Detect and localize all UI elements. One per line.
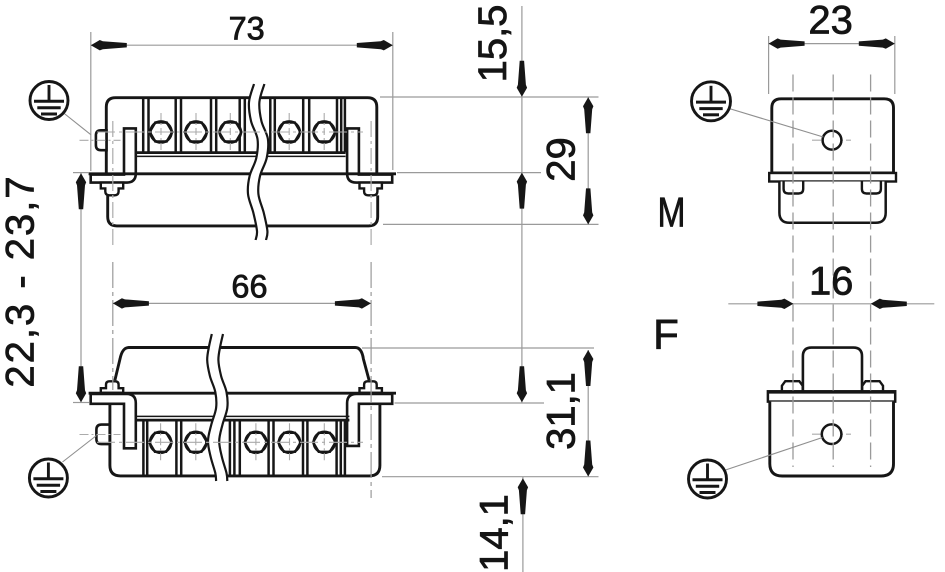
- dimension 14,1 line: [522, 477, 524, 572]
- svg-text:73: 73: [229, 11, 265, 47]
- male insert front view: upper body: [106, 98, 377, 175]
- F side view right tab: [862, 381, 883, 391]
- F side view PE screw: [812, 433, 851, 435]
- PE symbol M side: [692, 82, 731, 121]
- male flange line: [89, 172, 396, 175]
- leader line female PE: [63, 436, 97, 463]
- leader line F side PE: [720, 438, 823, 473]
- svg-text:M: M: [658, 190, 686, 236]
- F side view flange band: [768, 391, 895, 401]
- svg-text:66: 66: [231, 268, 267, 304]
- female body bottom extension line: [382, 476, 599, 478]
- female terminal screws (hex): [150, 432, 171, 453]
- dimension 22,3 - 23,7 line: [80, 173, 82, 403]
- male right hold-down clamp: [347, 128, 392, 182]
- side views vertical centerlines: [792, 75, 794, 468]
- M side view PE screw: [812, 139, 851, 141]
- female PE terminal lug: [96, 425, 109, 445]
- F side view left tab: [782, 381, 803, 391]
- M side view left latch lug: [784, 182, 804, 194]
- F side view tongue: [803, 348, 862, 392]
- female right peg: [360, 381, 382, 393]
- female terminal cell divider walls: [142, 421, 145, 474]
- dimension 73 extension lines: [90, 32, 92, 171]
- dimension 23 extension lines: [768, 36, 770, 94]
- female left peg: [101, 381, 123, 393]
- male left hold-down clamp: [91, 128, 136, 182]
- male lower body: [108, 195, 378, 226]
- dimension 23 line: [769, 43, 895, 45]
- female right hold-down clamp: [347, 394, 392, 446]
- PE symbol bottom-left: [29, 459, 67, 497]
- female flange extension lines: [73, 402, 89, 404]
- male left mounting foot: [101, 183, 123, 196]
- male body top extension line: [380, 96, 599, 98]
- F side view body: [770, 402, 894, 476]
- male PE terminal centerline: [80, 139, 121, 141]
- dimension 29 line: [587, 97, 589, 224]
- female PE terminal centerline: [80, 434, 121, 436]
- male view break (shortening squiggle): [248, 84, 268, 240]
- svg-text:F: F: [653, 311, 679, 358]
- svg-text:15,5: 15,5: [471, 5, 515, 83]
- foot centerline left (66 extension): [112, 121, 114, 248]
- svg-text:22,3 - 23,7: 22,3 - 23,7: [0, 174, 43, 387]
- male terminal screws (hex): [150, 121, 171, 142]
- female view break (shortening squiggle): [207, 334, 227, 481]
- leader line male PE: [63, 113, 91, 135]
- female screw row centerline: [97, 441, 363, 443]
- PE symbol top-left: [30, 82, 68, 120]
- M side view body: [772, 99, 894, 173]
- svg-text:23: 23: [808, 0, 853, 42]
- leader line M side PE: [723, 107, 824, 138]
- M side view flange band: [769, 173, 896, 182]
- dimension 16 line: [728, 303, 934, 305]
- dimension 66 line: [113, 302, 371, 304]
- male body bottom extension line: [383, 223, 599, 225]
- male screw terminals row centerline: [97, 131, 363, 133]
- right vertical dimension line (15,5): [521, 6, 523, 403]
- female cell top lines: [137, 415, 349, 417]
- male PE terminal lug: [96, 130, 107, 150]
- svg-text:29: 29: [540, 137, 584, 182]
- female body: [110, 393, 380, 476]
- svg-text:14,1: 14,1: [473, 494, 517, 572]
- svg-text:16: 16: [809, 260, 854, 304]
- female flange line: [89, 392, 396, 395]
- male insert terminal cell divider walls: [142, 99, 145, 153]
- M side view skirt: [779, 182, 885, 223]
- male insert cell bottom lines: [136, 151, 346, 154]
- svg-text:31,1: 31,1: [540, 372, 584, 450]
- male flange extension lines: [73, 172, 89, 174]
- M side view right latch lug: [862, 182, 881, 194]
- dimension 31,1 line: [587, 350, 589, 477]
- PE symbol F side: [689, 460, 727, 498]
- female insert front view: hood: [115, 348, 369, 381]
- male right mounting foot: [360, 183, 382, 196]
- female hood top extension line: [362, 347, 594, 349]
- female left hold-down clamp: [91, 394, 136, 448]
- dimension 73 line: [91, 44, 393, 46]
- foot centerline right (66 extension): [370, 121, 372, 248]
